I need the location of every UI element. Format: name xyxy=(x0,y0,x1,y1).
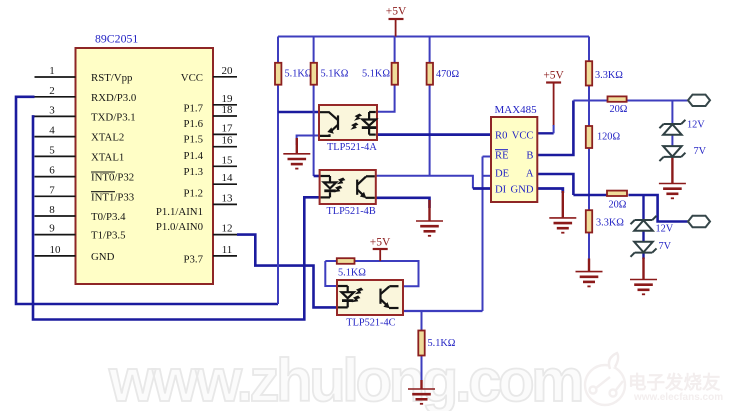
value 33K xyxy=(596,218,624,229)
wire output resistor to ground xyxy=(421,356,423,382)
svg-text:GND: GND xyxy=(511,184,534,195)
wire 4B collector / DE row with jog to DI xyxy=(376,176,473,189)
svg-text:20: 20 xyxy=(222,65,234,77)
svg-text:GND: GND xyxy=(91,251,115,263)
svg-text:120Ω: 120Ω xyxy=(597,132,620,143)
ground under 33K xyxy=(576,259,603,287)
svg-text:19: 19 xyxy=(222,93,234,105)
svg-text:13: 13 xyxy=(222,192,234,204)
label TLP521-4C xyxy=(346,318,395,329)
wire +5V top rail xyxy=(278,36,589,38)
resistor R 5.1K #1 xyxy=(275,63,281,85)
U1 right pin labels xyxy=(156,72,204,266)
wire terminal row 2 xyxy=(573,195,688,222)
value 470 xyxy=(436,69,459,80)
svg-text:8: 8 xyxy=(49,204,55,216)
IC U1 89C2051 body xyxy=(76,48,214,284)
value 20 #2 xyxy=(609,200,627,211)
svg-text:B: B xyxy=(526,150,533,161)
wire 4A LED cathode to MAX485 RO xyxy=(377,133,491,136)
wire 4A collector row xyxy=(278,111,319,113)
wire R2 top leg xyxy=(313,37,315,63)
svg-text:A: A xyxy=(526,168,534,179)
power +5V #2 MAX485 xyxy=(543,70,564,134)
wire 4B emitter to ground xyxy=(376,198,430,208)
svg-text:12: 12 xyxy=(222,223,233,235)
power +5V #3 4C xyxy=(370,237,391,262)
svg-text:RE: RE xyxy=(495,150,509,161)
svg-text:www.elecfans.com: www.elecfans.com xyxy=(633,392,723,403)
overline RE xyxy=(495,149,508,151)
svg-text:15: 15 xyxy=(222,154,234,166)
U1 left pin numbers xyxy=(49,65,61,256)
svg-text:1: 1 xyxy=(49,65,55,77)
svg-text:+5V: +5V xyxy=(543,70,564,82)
value 5.1K #3 xyxy=(362,69,390,80)
svg-text:P1.2: P1.2 xyxy=(183,188,203,200)
value 120 xyxy=(597,132,620,143)
wire R4 top leg xyxy=(429,37,431,63)
wire MAX485 GND to ground xyxy=(537,189,563,194)
value 12V #1 xyxy=(687,120,705,131)
optocoupler U2 TLP521-4A xyxy=(319,105,377,140)
svg-text:TXD/P3.1: TXD/P3.1 xyxy=(91,111,136,123)
svg-text:16: 16 xyxy=(222,135,234,147)
resistor R 5.1K horizontal at 4C xyxy=(337,258,355,264)
zener D1 12V xyxy=(659,120,685,135)
wire 120ohm bottom leg xyxy=(588,148,590,210)
svg-text:MAX485: MAX485 xyxy=(495,104,538,116)
value 20 #1 xyxy=(610,104,628,115)
wire 3.3K top leg from rail xyxy=(588,37,590,62)
svg-text:INT1/P33: INT1/P33 xyxy=(91,191,134,203)
svg-text:3.3KΩ: 3.3KΩ xyxy=(596,218,624,229)
svg-text:5.1KΩ: 5.1KΩ xyxy=(338,268,366,279)
wire MAX485 A down to line B terminal row xyxy=(537,174,573,195)
svg-text:XTAL1: XTAL1 xyxy=(91,151,124,163)
label TLP521-4A xyxy=(327,142,377,153)
wire DI row xyxy=(473,187,491,190)
value 5.1K 4C output xyxy=(428,338,456,349)
svg-text:5.1KΩ: 5.1KΩ xyxy=(362,69,390,80)
optocoupler U4 TLP521-4C xyxy=(337,280,403,315)
resistor R 470 xyxy=(427,63,433,85)
svg-text:10: 10 xyxy=(50,244,62,256)
watermark www.zhulong.com xyxy=(108,347,581,411)
svg-text:P1.6: P1.6 xyxy=(183,118,203,130)
resistor R 5.1K #3 xyxy=(392,63,398,85)
svg-text:12V: 12V xyxy=(687,120,705,131)
zener D2 7V xyxy=(659,146,685,161)
value 3.3K xyxy=(595,70,623,81)
wire R3 top leg xyxy=(394,37,396,63)
wire pin12 net to 4C cathode xyxy=(237,235,337,308)
wire TXD net pin3 to 4B cathode xyxy=(33,116,320,319)
wire R2 bottom leg to 4B anode xyxy=(314,85,320,176)
elecfans logo watermark xyxy=(585,353,723,405)
svg-text:TLP521-4A: TLP521-4A xyxy=(327,142,377,153)
label TLP521-4B xyxy=(327,206,376,217)
svg-text:VCC: VCC xyxy=(181,72,203,84)
resistor R 120 xyxy=(586,126,592,148)
svg-text:P1.5: P1.5 xyxy=(183,133,203,145)
svg-text:TLP521-4B: TLP521-4B xyxy=(327,206,376,217)
ground under zener string 2 xyxy=(630,258,657,295)
resistor R 20 #2 horizontal xyxy=(607,191,627,196)
svg-text:R0: R0 xyxy=(495,130,507,141)
wire terminal row 1 xyxy=(573,100,688,102)
U1 left pin stubs 1-10 xyxy=(35,77,76,256)
wire RE/DI vertical down to 4C emitter row xyxy=(482,157,484,312)
svg-text:5.1KΩ: 5.1KΩ xyxy=(285,69,313,80)
svg-text:18: 18 xyxy=(222,104,234,116)
svg-text:P3.7: P3.7 xyxy=(183,254,203,266)
svg-text:P1.1/AIN1: P1.1/AIN1 xyxy=(156,206,203,218)
overline INT0 xyxy=(91,171,115,173)
svg-text:T0/P3.4: T0/P3.4 xyxy=(91,211,126,223)
IC U5 MAX485 body xyxy=(491,117,537,202)
wire zener string 2 xyxy=(642,195,644,259)
svg-text:3.3KΩ: 3.3KΩ xyxy=(595,70,623,81)
svg-text:DE: DE xyxy=(495,168,509,179)
resistor R 5.1K #2 xyxy=(311,63,317,85)
svg-text:20Ω: 20Ω xyxy=(610,104,628,115)
svg-text:7V: 7V xyxy=(694,146,707,157)
value 5.1K 4C pullup xyxy=(338,268,366,279)
svg-text:电子发烧友: 电子发烧友 xyxy=(628,372,721,393)
svg-text:DI: DI xyxy=(495,184,507,195)
wire R3 bottom leg to 4A LED anode xyxy=(377,85,395,112)
value 7V #2 xyxy=(659,241,672,252)
svg-text:11: 11 xyxy=(222,244,233,256)
resistor R 33K bottom xyxy=(586,210,592,232)
svg-text:4: 4 xyxy=(49,125,55,137)
svg-text:7: 7 xyxy=(49,184,55,196)
svg-text:17: 17 xyxy=(222,122,234,134)
svg-text:P1.4: P1.4 xyxy=(183,150,203,162)
svg-text:470Ω: 470Ω xyxy=(436,69,459,80)
value 5.1K #2 xyxy=(321,69,349,80)
svg-text:VCC: VCC xyxy=(512,130,534,141)
ground under zener string 1 xyxy=(659,157,686,198)
wire R1 bottom leg down to RXD row xyxy=(277,85,279,304)
ground under 4C output resistor xyxy=(408,380,435,404)
zener D3 12V xyxy=(631,216,657,231)
wire 33K bottom leg to ground xyxy=(588,233,590,261)
wire R1 top leg xyxy=(277,37,279,63)
wire 4A emitter to ground xyxy=(297,136,319,146)
wire 4C emitter row xyxy=(403,310,483,312)
svg-text:6: 6 xyxy=(49,165,55,177)
MAX485 pin labels xyxy=(495,130,534,195)
wire zener string 1 xyxy=(671,101,673,147)
ground under MAX485 GND xyxy=(549,191,576,233)
wire MAX485 B up to line A terminal row xyxy=(537,101,573,156)
U1 right pin stubs 20-11 xyxy=(213,77,237,256)
svg-text:P1.7: P1.7 xyxy=(183,103,203,115)
svg-text:20Ω: 20Ω xyxy=(609,200,627,211)
zener D4 7V xyxy=(631,242,657,257)
label MAX485 xyxy=(495,104,538,116)
wire 4C anode loop xyxy=(325,261,337,286)
ground under 4A emitter xyxy=(283,138,310,169)
resistor R 5.1K 4C output xyxy=(418,331,424,356)
resistor R 20 #1 horizontal xyxy=(608,96,627,101)
svg-text:89C2051: 89C2051 xyxy=(95,32,138,46)
U1 right pin numbers xyxy=(222,65,234,256)
svg-text:TLP521-4C: TLP521-4C xyxy=(346,318,395,329)
wire 3.3K bottom leg to row1 xyxy=(588,86,590,127)
port terminal 1 xyxy=(688,95,710,106)
resistor R 3.3K xyxy=(586,61,592,85)
svg-text:RST/Vpp: RST/Vpp xyxy=(91,72,132,84)
svg-text:5.1KΩ: 5.1KΩ xyxy=(321,69,349,80)
optocoupler U3 TLP521-4B xyxy=(320,170,376,204)
overline INT1 xyxy=(91,191,115,193)
value 5.1K #1 xyxy=(285,69,313,80)
svg-text:INT0/P32: INT0/P32 xyxy=(91,172,134,184)
svg-text:+5V: +5V xyxy=(386,6,407,18)
svg-text:7V: 7V xyxy=(659,241,672,252)
svg-text:+5V: +5V xyxy=(370,237,391,249)
wire RE stub xyxy=(483,156,492,158)
port terminal 2 xyxy=(688,216,710,227)
wire DE stub xyxy=(483,175,492,177)
svg-text:RXD/P3.0: RXD/P3.0 xyxy=(91,92,136,104)
svg-text:www.zhulong.com: www.zhulong.com xyxy=(108,347,581,411)
svg-text:5: 5 xyxy=(49,144,55,156)
svg-text:9: 9 xyxy=(49,223,55,235)
wire 4C pullup resistor row from +5V xyxy=(325,261,418,286)
wire RXD net pin2 to 4A collector xyxy=(16,97,278,304)
svg-text:XTAL2: XTAL2 xyxy=(91,132,124,144)
svg-text:T1/P3.5: T1/P3.5 xyxy=(91,230,126,242)
label 89C2051 xyxy=(95,32,138,46)
svg-text:3: 3 xyxy=(49,104,55,116)
svg-text:P1.3: P1.3 xyxy=(183,166,203,178)
ground under 4B emitter xyxy=(416,200,443,236)
power +5V #1 top xyxy=(386,6,407,37)
svg-text:P1.0/AIN0: P1.0/AIN0 xyxy=(156,221,203,233)
svg-text:12V: 12V xyxy=(656,224,674,235)
svg-text:5.1KΩ: 5.1KΩ xyxy=(428,338,456,349)
value 12V #2 xyxy=(656,224,674,235)
wire 4C emitter tee down to output resistor xyxy=(421,311,423,331)
value 7V #1 xyxy=(694,146,707,157)
svg-text:2: 2 xyxy=(49,85,55,97)
U1 left pin labels xyxy=(91,72,136,263)
svg-text:14: 14 xyxy=(222,172,234,184)
wire MAX485 VCC to +5V xyxy=(537,132,553,134)
wire R4 bottom leg to DE row xyxy=(429,85,431,176)
